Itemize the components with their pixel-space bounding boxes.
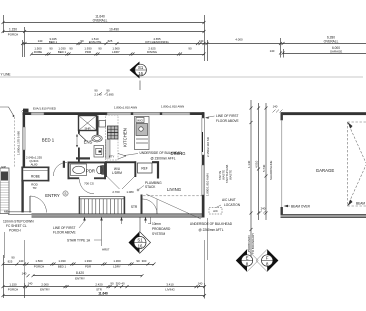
svg-text:11.640: 11.640	[98, 291, 108, 295]
svg-text:1.150: 1.150	[9, 283, 17, 287]
window fixed top-left	[31, 113, 44, 115]
svg-text:LDRY: LDRY	[113, 265, 121, 269]
svg-text:REF: REF	[141, 167, 147, 171]
ref box	[138, 163, 153, 173]
svg-text:LDRY: LDRY	[112, 50, 120, 54]
section marker S1 top	[130, 62, 147, 91]
svg-text:PDR: PDR	[85, 50, 91, 54]
svg-text:SHR: SHR	[84, 127, 90, 131]
stair right wall	[124, 197, 126, 214]
fence line	[0, 107, 14, 116]
svg-text:STACK: STACK	[145, 185, 156, 189]
bottom dimension row C	[2, 283, 207, 299]
svg-text:KITCHEN/DINING: KITCHEN/DINING	[145, 40, 169, 44]
svg-text:FC SHEET CL: FC SHEET CL	[6, 224, 27, 228]
living door arc near stairs	[143, 199, 158, 214]
svg-text:1.080: 1.080	[126, 190, 134, 194]
svg-text:UNDERSIDE OF BULKHEAD: UNDERSIDE OF BULKHEAD	[140, 151, 183, 155]
svg-text:L/DRM: L/DRM	[112, 171, 122, 175]
line of first floor dashed in living	[143, 195, 202, 197]
wall right of str	[141, 195, 143, 215]
svg-text:90: 90	[136, 259, 140, 263]
svg-text:A/C UNIT: A/C UNIT	[222, 198, 236, 202]
svg-text:140: 140	[270, 49, 275, 53]
pdr vanity	[71, 164, 87, 176]
svg-text:110mm STEP DOWN: 110mm STEP DOWN	[3, 220, 34, 224]
svg-text:1.800x1.810 AWN: 1.800x1.810 AWN	[161, 105, 184, 109]
svg-text:90: 90	[80, 39, 84, 43]
svg-text:16: 16	[138, 71, 143, 76]
svg-text:FLOOR ABOVE: FLOOR ABOVE	[216, 119, 239, 123]
ens niche	[99, 121, 106, 128]
window kitchen	[107, 113, 131, 115]
svg-text:PORCH: PORCH	[8, 287, 18, 291]
bottom dimension row A	[2, 255, 156, 298]
svg-text:GIP: GIP	[1, 165, 6, 169]
svg-text:@ 2300mm AFFL: @ 2300mm AFFL	[151, 157, 176, 161]
section marker S1 bottom	[129, 218, 151, 254]
svg-text:TR: TR	[33, 186, 37, 190]
ens shower	[79, 116, 97, 131]
svg-text:1.500: 1.500	[35, 259, 43, 263]
svg-text:1.800/1.810 AWN: 1.800/1.810 AWN	[206, 173, 210, 196]
svg-text:S1: S1	[138, 65, 144, 70]
svg-text:1.695: 1.695	[106, 93, 114, 97]
svg-text:W/O: W/O	[137, 119, 144, 123]
svg-text:ENTRY: ENTRY	[40, 287, 50, 291]
sliding door in right wall	[202, 118, 205, 155]
svg-text:PORCH: PORCH	[9, 229, 21, 233]
svg-text:1.930: 1.930	[84, 259, 92, 263]
svg-text:4.000: 4.000	[235, 38, 243, 42]
outer wall below robe	[21, 181, 23, 212]
svg-text:1.150: 1.150	[9, 28, 17, 32]
pdr wc	[97, 166, 105, 175]
svg-text:90: 90	[98, 46, 102, 50]
dimension row 3	[21, 38, 366, 61]
extension line x207 bottom	[207, 218, 209, 260]
leaders below plan	[85, 217, 151, 246]
svg-text:S: S	[64, 192, 66, 196]
svg-text:ENSUITE: ENSUITE	[89, 40, 102, 44]
svg-text:KITCHEN: KITCHEN	[123, 128, 128, 147]
svg-text:625: 625	[108, 39, 113, 43]
house right wall	[202, 112, 205, 217]
svg-text:E: E	[246, 256, 249, 261]
svg-text:HR07: HR07	[102, 248, 110, 252]
svg-text:F: F	[266, 256, 269, 261]
svg-text:PDR: PDR	[86, 169, 95, 174]
svg-text:BEAM: BEAM	[356, 202, 365, 206]
window dining 2	[162, 113, 190, 115]
svg-text:1.140: 1.140	[247, 160, 251, 168]
ens bench	[76, 157, 90, 159]
svg-text:STR: STR	[131, 205, 138, 209]
window dining 1	[133, 113, 160, 115]
svg-text:140: 140	[38, 39, 43, 43]
svg-text:300: 300	[116, 282, 121, 286]
porch left wall + meter box	[0, 168, 9, 214]
robe room	[21, 167, 49, 182]
porch text	[4, 232, 6, 258]
svg-text:PDR: PDR	[85, 265, 91, 269]
svg-text:2.700: 2.700	[112, 190, 120, 194]
garage left wall stubs	[281, 112, 283, 120]
ens door	[79, 134, 87, 142]
svg-text:700 CS: 700 CS	[84, 182, 94, 186]
svg-text:ENS: ENS	[84, 140, 93, 145]
ens vanity	[94, 146, 104, 158]
kitchen tall cabinets / ovens	[108, 126, 119, 139]
ens wall right of shower	[97, 116, 99, 136]
svg-text:90: 90	[49, 46, 53, 50]
svg-text:SHADOWLINE: SHADOWLINE	[269, 160, 273, 180]
svg-text:ROBE: ROBE	[34, 50, 42, 54]
svg-text:WASTE: WASTE	[229, 170, 233, 180]
svg-text:@ 2260mm AFTL: @ 2260mm AFTL	[198, 228, 223, 232]
pdr door	[79, 179, 94, 194]
house top wall	[23, 112, 204, 115]
svg-text:LIVING: LIVING	[165, 287, 175, 291]
svg-text:BED 1: BED 1	[58, 265, 67, 269]
svg-text:STAIR TYPE 1A: STAIR TYPE 1A	[67, 239, 91, 243]
wall right of ref	[152, 162, 158, 178]
svg-text:1.800x1.810 AWN: 1.800x1.810 AWN	[114, 106, 137, 110]
svg-text:140: 140	[19, 259, 24, 263]
svg-text:140: 140	[22, 272, 27, 276]
svg-text:2.420: 2.420	[95, 283, 103, 287]
svg-text:AL80: AL80	[31, 163, 38, 167]
svg-text:10.490: 10.490	[109, 28, 119, 32]
smoke detector	[63, 191, 68, 196]
svg-text:1.030: 1.030	[58, 259, 66, 263]
kitchen island	[135, 117, 150, 150]
garage bottom wall	[281, 215, 366, 218]
laundry room walls	[105, 161, 136, 177]
svg-text:ENTRY: ENTRY	[45, 193, 60, 198]
pdr room	[68, 162, 107, 180]
pier block top-left	[23, 109, 29, 113]
svg-text:90: 90	[110, 282, 114, 286]
svg-text:4.510: 4.510	[254, 160, 258, 168]
svg-text:1.360: 1.360	[113, 259, 121, 263]
stairs	[79, 197, 125, 214]
svg-text:16: 16	[138, 244, 143, 249]
kitchen bench dashed	[106, 115, 119, 160]
svg-text:40: 40	[121, 282, 125, 286]
svg-text:SYSTEM: SYSTEM	[152, 232, 165, 236]
svg-text:LIVING: LIVING	[167, 187, 182, 192]
ens wc	[92, 135, 102, 142]
bottom dimension row B	[27, 274, 144, 277]
svg-text:2.150/2.110 SD: 2.150/2.110 SD	[206, 137, 210, 157]
bed1/hall door	[53, 162, 67, 176]
svg-text:PTY: PTY	[109, 155, 115, 159]
tick cluster garage corner	[273, 110, 283, 113]
svg-text:BED 1: BED 1	[42, 138, 55, 143]
svg-text:LINE OF FIRST: LINE OF FIRST	[53, 226, 76, 230]
svg-text:MB: MB	[4, 210, 8, 214]
svg-text:OVERALL: OVERALL	[324, 40, 339, 44]
svg-text:140: 140	[198, 282, 203, 286]
svg-text:ROBE: ROBE	[31, 175, 40, 179]
entry door	[29, 196, 31, 213]
right vertical dim lines	[250, 100, 268, 256]
svg-text:PROBOARD: PROBOARD	[152, 227, 171, 231]
svg-text:PORCH: PORCH	[34, 265, 44, 269]
house left wall	[23, 112, 26, 167]
svg-text:ENTRY: ENTRY	[75, 277, 85, 281]
svg-text:BED 1: BED 1	[58, 50, 67, 54]
boundary line	[0, 76, 363, 78]
bed1 window left	[23, 127, 25, 150]
awn window in right wall lower	[202, 165, 205, 195]
svg-text:1.800x2.170 9.680: 1.800x2.170 9.680	[17, 131, 21, 155]
svg-text:140: 140	[199, 39, 204, 43]
svg-text:2.000: 2.000	[41, 283, 49, 287]
house bottom wall	[32, 214, 205, 217]
svg-text:825: 825	[8, 260, 13, 264]
porch step	[8, 212, 32, 215]
laundry chute diagonals	[107, 177, 135, 190]
garage door dashed + diagonals	[348, 122, 366, 206]
svg-text:LOCATION: LOCATION	[224, 203, 241, 207]
elevation marker F	[256, 249, 278, 271]
svg-text:5.740: 5.740	[262, 164, 266, 172]
beam over note	[284, 205, 289, 207]
svg-text:S1: S1	[137, 238, 143, 243]
tick cluster garage bottom corner	[259, 211, 266, 214]
svg-text:GARAGE: GARAGE	[316, 168, 335, 173]
dimension row 4	[30, 53, 206, 56]
svg-text:PORCH: PORCH	[8, 33, 18, 37]
svg-text:8.420: 8.420	[76, 271, 84, 275]
svg-text:90: 90	[188, 46, 192, 50]
setback dashed line	[14, 117, 16, 168]
svg-text:DINING: DINING	[147, 50, 158, 54]
svg-text:3.410: 3.410	[166, 283, 174, 287]
bottom dimension row D overall	[2, 294, 207, 297]
svg-text:GARAGE: GARAGE	[330, 50, 342, 54]
svg-text:140: 140	[273, 105, 278, 109]
svg-text:LINE OF FIRST: LINE OF FIRST	[216, 114, 239, 118]
svg-text:TO BOUNDARY: TO BOUNDARY	[251, 233, 255, 254]
svg-text:90: 90	[69, 46, 73, 50]
svg-text:OVERALL: OVERALL	[93, 19, 108, 23]
svg-text:BEAM OVER: BEAM OVER	[291, 205, 311, 209]
svg-text:300: 300	[142, 259, 147, 263]
elevation marker E	[236, 249, 258, 271]
svg-text:EVA/1.810 FIXED: EVA/1.810 FIXED	[33, 106, 56, 110]
dimension garage 6.000	[279, 49, 366, 58]
svg-text:Y LINE: Y LINE	[1, 73, 11, 77]
garage top wall	[281, 112, 366, 115]
svg-text:BED 1: BED 1	[49, 40, 58, 44]
svg-text:240: 240	[261, 207, 266, 211]
dimension row 2 porch 1.150 + 10.490	[2, 27, 206, 57]
dimension row 1 overall 11.640	[2, 15, 206, 61]
svg-text:A/C: A/C	[213, 209, 218, 213]
svg-text:UNDERSIDE OF BULKHEAD: UNDERSIDE OF BULKHEAD	[190, 222, 233, 226]
svg-text:FLOOR ABOVE: FLOOR ABOVE	[53, 231, 76, 235]
svg-text:10mm: 10mm	[152, 222, 161, 226]
ens wall left vertical	[78, 131, 80, 134]
svg-text:140: 140	[28, 282, 33, 286]
